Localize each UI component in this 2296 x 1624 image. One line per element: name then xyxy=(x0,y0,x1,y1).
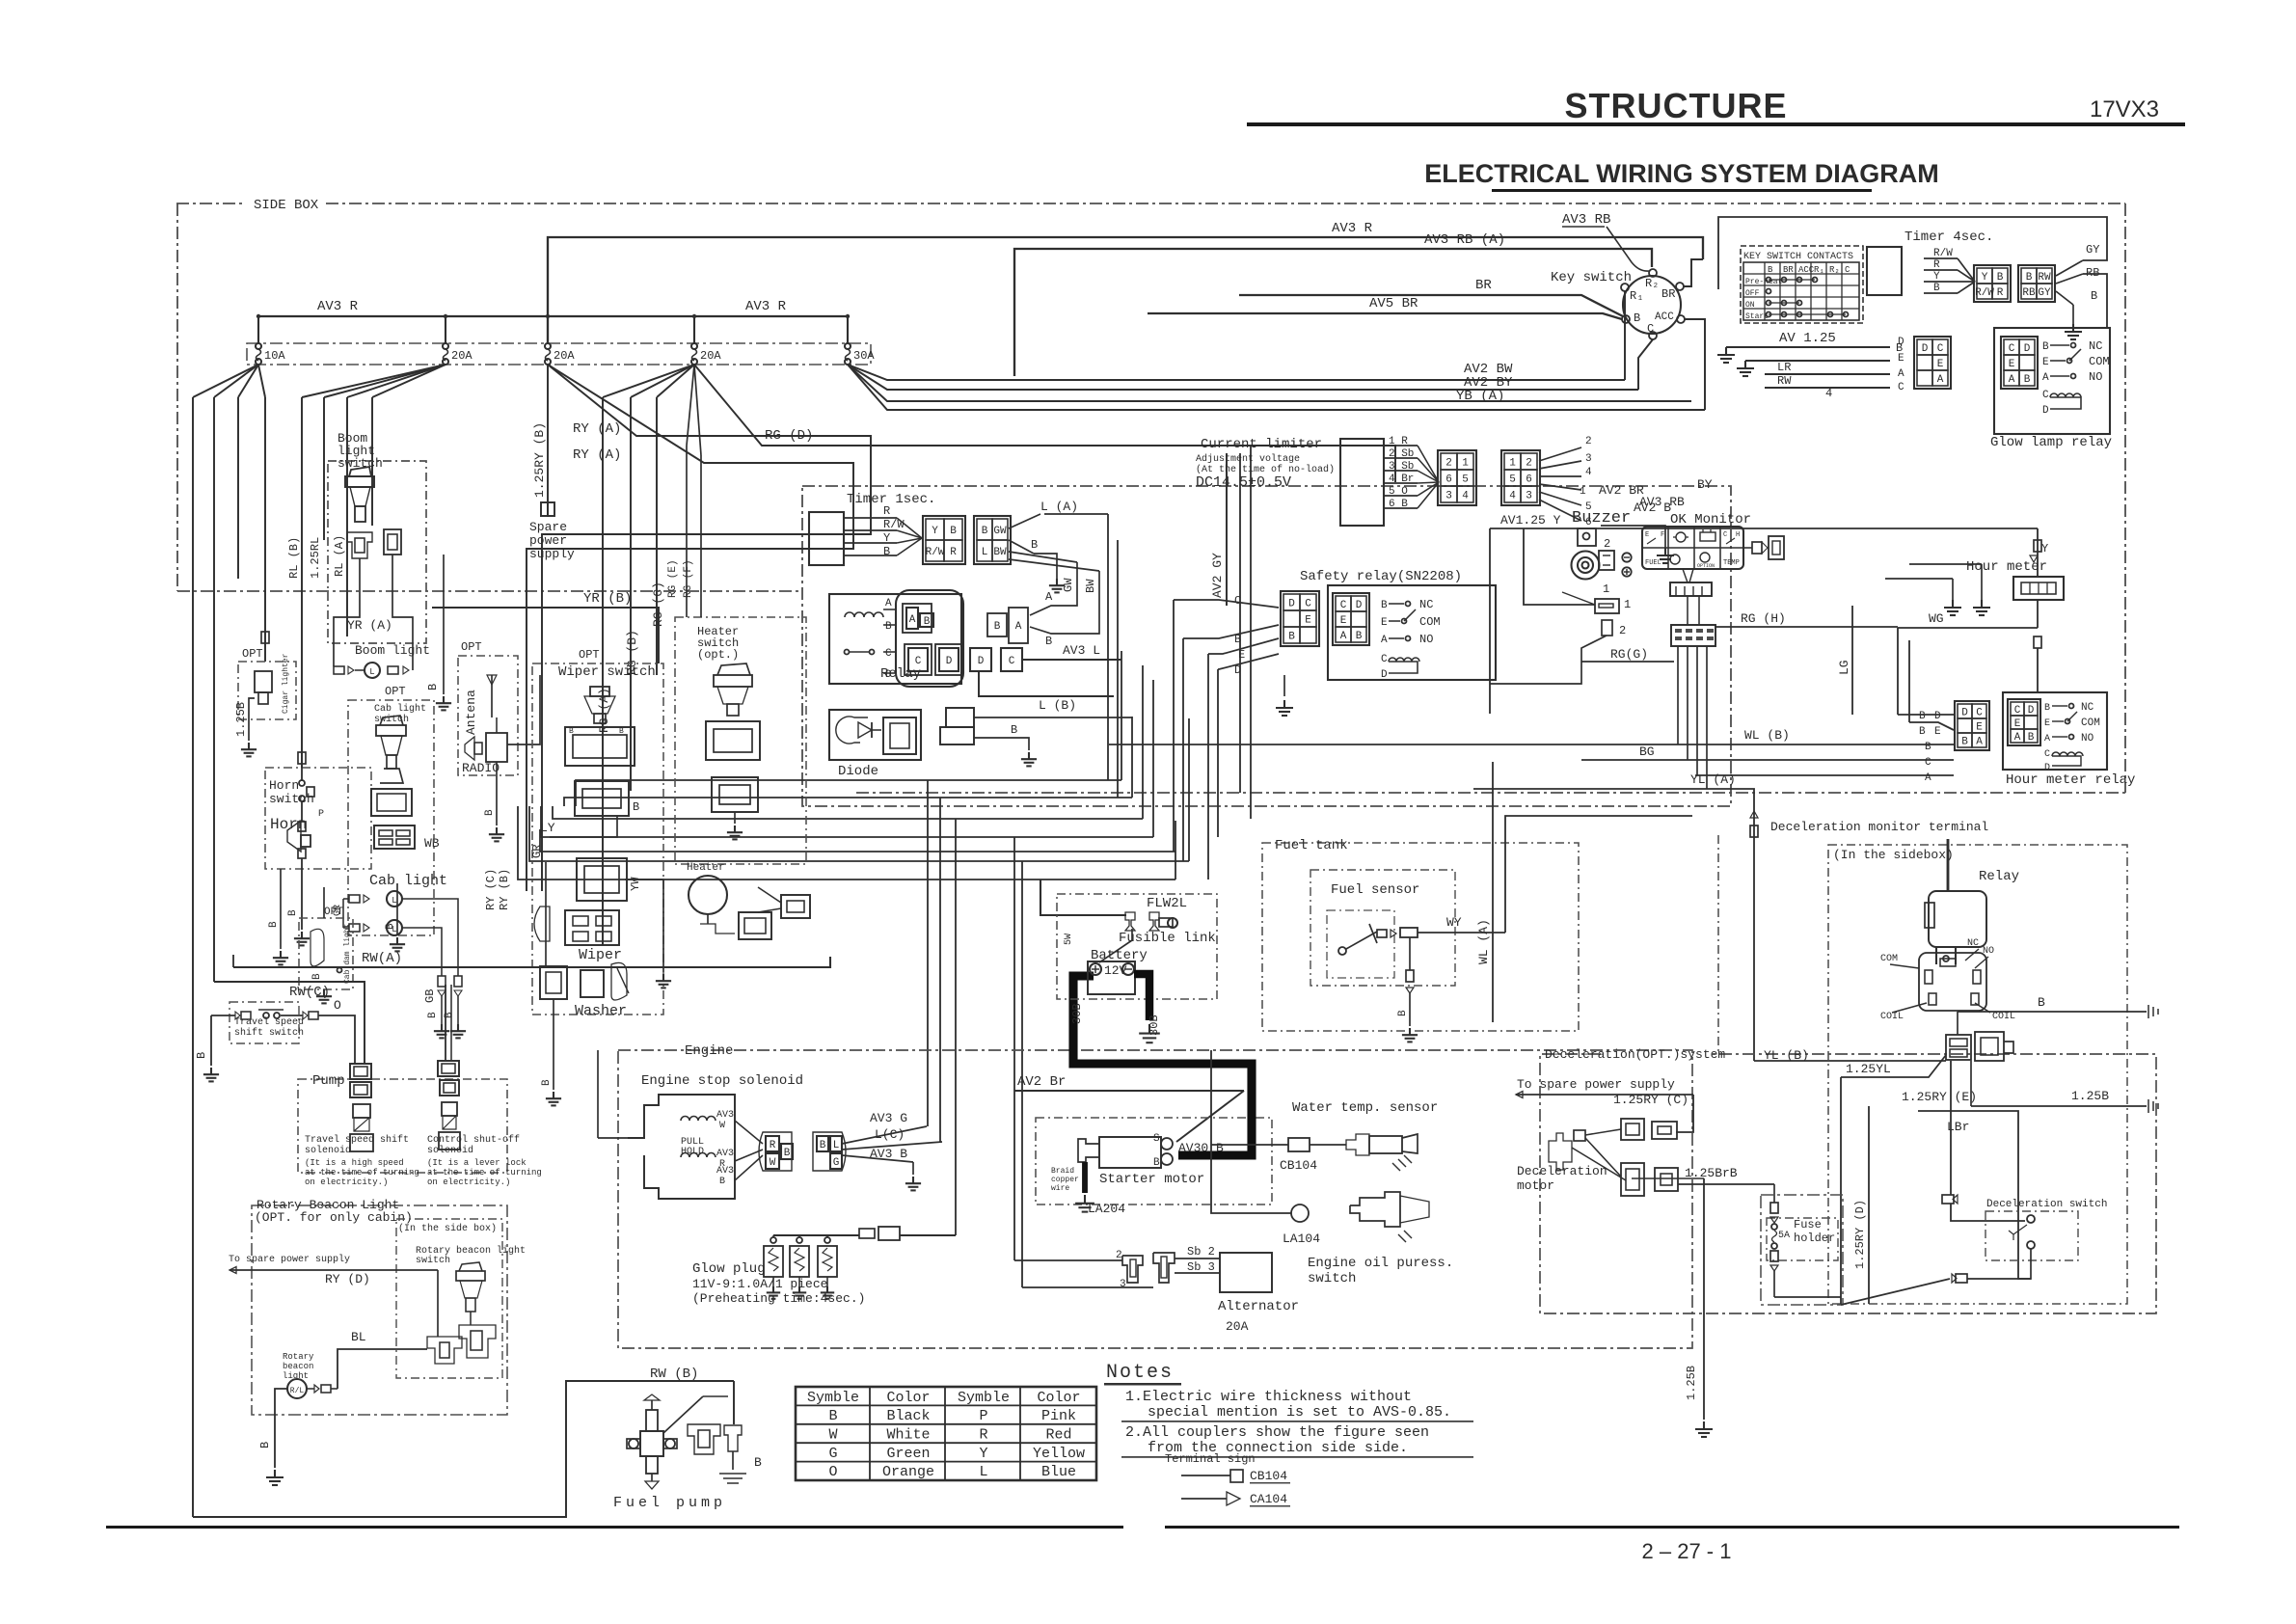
travel speed shift switch box xyxy=(230,1002,299,1043)
svg-text:A: A xyxy=(2014,732,2021,744)
svg-text:YB (A): YB (A) xyxy=(1456,389,1504,404)
svg-text:COIL: COIL xyxy=(1880,1012,1904,1022)
current limiter outputs xyxy=(1539,447,1581,461)
svg-text:NC: NC xyxy=(1419,598,1433,611)
svg-text:E: E xyxy=(1937,359,1944,370)
svg-text:GY: GY xyxy=(2038,287,2051,299)
wire 1.25YL vertical xyxy=(1840,1077,1842,1305)
timer output wires xyxy=(2056,260,2083,276)
boom light connector 2 xyxy=(384,529,401,555)
buzzer xyxy=(1578,528,1596,546)
svg-text:DC14.5±0.5V: DC14.5±0.5V xyxy=(1196,474,1291,491)
svg-text:NC: NC xyxy=(2089,339,2102,353)
boom light switch rocker xyxy=(345,476,374,487)
svg-text:20A: 20A xyxy=(554,349,575,363)
svg-text:C: C xyxy=(2009,343,2015,355)
svg-text:Terminal sign: Terminal sign xyxy=(1165,1452,1256,1466)
svg-text:YR (B): YR (B) xyxy=(583,591,632,607)
horn switch box xyxy=(265,768,371,869)
svg-text:solenoid: solenoid xyxy=(427,1145,473,1156)
glow relay connector xyxy=(1914,337,1951,389)
svg-text:AV3 R: AV3 R xyxy=(745,299,787,314)
svg-text:Pink: Pink xyxy=(1041,1408,1076,1424)
wire L (A) xyxy=(1009,514,1040,528)
svg-text:B: B xyxy=(982,526,988,537)
fanout from fuse 10A xyxy=(193,365,258,397)
svg-text:BL: BL xyxy=(351,1330,366,1344)
svg-text:Relay: Relay xyxy=(1979,869,2019,884)
safety relay input wires xyxy=(1174,600,1279,608)
spare power supply connector xyxy=(541,502,548,516)
svg-text:Safety relay(SN2208): Safety relay(SN2208) xyxy=(1300,569,1462,584)
svg-text:1.25RY (D): 1.25RY (D) xyxy=(1853,1200,1867,1269)
svg-text:A: A xyxy=(1976,737,1983,748)
svg-text:BR: BR xyxy=(1783,265,1794,275)
svg-text:SIDE BOX: SIDE BOX xyxy=(254,198,319,213)
svg-text:WL (A): WL (A) xyxy=(1476,919,1491,964)
svg-text:COM: COM xyxy=(1419,615,1441,629)
svg-text:1.25YL: 1.25YL xyxy=(1846,1062,1891,1076)
wiper relay connector xyxy=(575,781,629,816)
svg-text:R/L: R/L xyxy=(290,1387,305,1395)
svg-text:B: B xyxy=(784,1148,791,1159)
monitor battery icon xyxy=(1700,532,1715,541)
solenoid output wires xyxy=(842,1126,927,1144)
svg-text:B: B xyxy=(994,621,1001,633)
wire B ground diode xyxy=(974,738,1029,750)
mid band bottom dash-dot xyxy=(856,792,2125,794)
svg-text:30B: 30B xyxy=(1070,1003,1084,1024)
svg-text:(In the side box): (In the side box) xyxy=(398,1223,497,1234)
svg-text:R₂: R₂ xyxy=(1645,277,1659,290)
svg-text:R: R xyxy=(1997,287,2004,299)
dome light grounds xyxy=(280,869,282,949)
svg-text:WG: WG xyxy=(1929,611,1944,626)
svg-text:B: B xyxy=(2044,703,2050,714)
svg-text:E: E xyxy=(2014,718,2021,730)
monitor connector block xyxy=(1671,625,1715,646)
svg-text:Fuel sensor: Fuel sensor xyxy=(1331,882,1419,898)
svg-text:AV1.25 Y: AV1.25 Y xyxy=(1500,513,1561,528)
svg-text:NO: NO xyxy=(2081,733,2094,744)
svg-text:17VX3: 17VX3 xyxy=(2090,96,2159,122)
wire from D down xyxy=(979,671,1114,696)
svg-text:Y: Y xyxy=(2041,542,2048,555)
svg-text:White: White xyxy=(886,1426,930,1443)
fuse 10A at x=268 xyxy=(257,316,259,343)
svg-text:L (A): L (A) xyxy=(1040,500,1078,514)
svg-text:GR: GR xyxy=(530,845,544,858)
svg-text:NC: NC xyxy=(1967,938,1979,949)
timer ground xyxy=(2072,305,2074,324)
svg-text:Wiper: Wiper xyxy=(579,947,622,963)
svg-text:D: D xyxy=(2042,405,2049,417)
svg-text:RW: RW xyxy=(2038,272,2051,284)
relay connector AB xyxy=(903,604,932,633)
svg-text:B: B xyxy=(1045,635,1052,648)
monitor coolant icon xyxy=(1676,532,1686,542)
svg-text:1.25RY (E): 1.25RY (E) xyxy=(1902,1090,1977,1104)
svg-text:C: C xyxy=(1898,382,1904,393)
wire 1.25RY (B) to spare power supply xyxy=(547,365,549,501)
svg-text:C: C xyxy=(1009,656,1015,667)
current limiter connector A xyxy=(1438,450,1476,505)
svg-text:RY (B): RY (B) xyxy=(498,869,511,910)
svg-text:D: D xyxy=(1934,711,1941,722)
thick minus to ground xyxy=(1134,974,1149,1020)
svg-text:Fusible link: Fusible link xyxy=(1119,931,1216,946)
svg-text:Boom light: Boom light xyxy=(355,643,430,658)
svg-text:LG: LG xyxy=(1837,660,1851,675)
svg-text:Y: Y xyxy=(932,526,938,537)
svg-text:LY: LY xyxy=(540,821,555,835)
svg-text:G: G xyxy=(828,1446,837,1462)
alternator connector 1 xyxy=(1122,1256,1143,1283)
svg-text:Y: Y xyxy=(883,531,890,545)
wiper B ground wire xyxy=(625,880,663,972)
cab light opt box xyxy=(348,700,434,935)
wire RG(G) xyxy=(1490,636,1607,684)
svg-text:at the time of turning: at the time of turning xyxy=(427,1168,542,1177)
rotary beacon light connector xyxy=(307,1388,314,1390)
svg-text:E: E xyxy=(1305,615,1311,627)
svg-text:GW: GW xyxy=(1062,578,1075,592)
svg-text:1: 1 xyxy=(1462,458,1469,470)
svg-text:1.Electric wire thickness with: 1.Electric wire thickness without xyxy=(1125,1389,1412,1405)
svg-text:Y: Y xyxy=(1933,271,1940,283)
svg-text:shift switch: shift switch xyxy=(234,1027,304,1039)
svg-text:B: B xyxy=(2028,732,2035,744)
svg-text:A: A xyxy=(1381,635,1388,646)
glow feed connector xyxy=(859,1229,875,1238)
svg-text:R: R xyxy=(1933,259,1940,271)
glow lamp relay box xyxy=(1994,328,2110,434)
svg-text:B: B xyxy=(311,973,323,980)
svg-text:Rotary: Rotary xyxy=(283,1352,314,1362)
svg-text:D: D xyxy=(1288,599,1295,610)
svg-text:AV 1.25: AV 1.25 xyxy=(1779,331,1836,346)
wire bottom frame to RW(B) xyxy=(193,1381,734,1517)
engine solenoid wire to left xyxy=(598,1137,628,1139)
svg-text:H: H xyxy=(1736,531,1740,539)
wiper switch lever xyxy=(590,687,609,696)
svg-text:L (B): L (B) xyxy=(1039,698,1076,713)
svg-text:Hour meter relay: Hour meter relay xyxy=(2006,772,2135,788)
radio opt box xyxy=(458,656,518,775)
svg-text:NO: NO xyxy=(2089,370,2102,384)
fuel pump connectors xyxy=(688,1424,720,1454)
svg-text:2: 2 xyxy=(1445,458,1452,470)
vertical bundle xyxy=(1107,514,1109,780)
svg-text:B: B xyxy=(633,800,639,814)
connector BA mid xyxy=(987,613,1007,636)
svg-text:COM: COM xyxy=(2089,355,2110,368)
svg-text:C: C xyxy=(1723,531,1727,539)
svg-text:Adjustment voltage: Adjustment voltage xyxy=(1196,453,1300,465)
svg-text:OPT: OPT xyxy=(242,647,263,661)
svg-text:1: 1 xyxy=(1580,486,1586,498)
svg-text:Key switch: Key switch xyxy=(1551,270,1632,285)
svg-text:RG (H): RG (H) xyxy=(1741,611,1786,626)
svg-text:copper: copper xyxy=(1051,1176,1079,1184)
svg-text:R₁: R₁ xyxy=(1814,265,1824,275)
svg-text:RG(G): RG(G) xyxy=(1610,647,1648,662)
svg-text:(OPT. for only cabin): (OPT. for only cabin) xyxy=(255,1210,413,1225)
ok monitor connector right xyxy=(1743,547,1752,549)
svg-text:Y: Y xyxy=(1982,272,1988,284)
wire WL (A) vertical xyxy=(1492,762,1494,1022)
opt cab dome light xyxy=(299,918,353,989)
svg-text:AV3: AV3 xyxy=(716,1166,734,1177)
battery box xyxy=(1088,961,1135,994)
wire RY (A) lower xyxy=(527,365,853,891)
staircase horizontals xyxy=(576,780,1121,806)
deceleration opt system box xyxy=(1540,1054,2156,1313)
svg-text:FUEL: FUEL xyxy=(1645,559,1661,567)
svg-text:E: E xyxy=(1381,617,1388,629)
decel switch lower wire xyxy=(1967,1249,2031,1279)
hour meter relay input wires xyxy=(1898,714,1954,716)
svg-text:20A: 20A xyxy=(700,349,721,363)
svg-text:WB: WB xyxy=(424,836,440,851)
svg-text:AV3 L: AV3 L xyxy=(1063,643,1100,658)
svg-text:2 – 27 - 1: 2 – 27 - 1 xyxy=(1642,1539,1732,1563)
svg-text:B: B xyxy=(541,1079,553,1086)
svg-text:2: 2 xyxy=(1585,436,1592,447)
svg-text:ACC: ACC xyxy=(1798,265,1815,275)
svg-text:B: B xyxy=(820,1140,826,1151)
svg-text:A: A xyxy=(885,598,892,609)
svg-text:ACC: ACC xyxy=(1655,311,1674,323)
svg-text:Control shut-off: Control shut-off xyxy=(427,1134,520,1146)
timer 4sec connector xyxy=(1974,265,2011,302)
side box frame top xyxy=(176,203,244,204)
horn ground xyxy=(301,932,303,938)
relay timer enclosure xyxy=(802,486,1731,806)
svg-text:Fuel tank: Fuel tank xyxy=(1275,838,1348,853)
wire to hour meter xyxy=(2037,528,2039,577)
radio wires xyxy=(496,717,498,733)
svg-text:L: L xyxy=(392,896,396,906)
key switch contacts xyxy=(1649,269,1657,277)
svg-text:O: O xyxy=(828,1464,837,1480)
svg-text:B: B xyxy=(2026,272,2033,284)
svg-text:Sb 2: Sb 2 xyxy=(1187,1245,1215,1259)
rotary beacon light switch xyxy=(456,1271,485,1281)
monitor plug xyxy=(1670,582,1712,596)
svg-text:D: D xyxy=(1381,669,1388,681)
svg-text:switch: switch xyxy=(1308,1271,1356,1286)
timer 1sec fan wires xyxy=(844,517,897,519)
key switch BR-right link xyxy=(1684,259,1703,286)
svg-text:30B: 30B xyxy=(1148,1015,1161,1036)
key switch contacts table xyxy=(1741,246,1863,323)
svg-text:OPT: OPT xyxy=(324,907,343,918)
svg-text:1.25RY (B): 1.25RY (B) xyxy=(532,422,547,498)
svg-text:RADIO: RADIO xyxy=(462,761,500,775)
svg-text:COIL: COIL xyxy=(1992,1012,2015,1022)
svg-text:6 B: 6 B xyxy=(1389,499,1408,510)
fuse holder inner box xyxy=(1767,1218,1838,1260)
svg-text:E: E xyxy=(2009,359,2015,370)
svg-text:P: P xyxy=(318,809,324,820)
wire AV1.25 Y xyxy=(1490,528,2038,529)
svg-text:To spare power supply: To spare power supply xyxy=(229,1254,350,1265)
left vertical 3 xyxy=(237,397,239,579)
svg-text:RW(C): RW(C) xyxy=(289,985,330,1000)
fuse row band xyxy=(247,343,871,365)
svg-text:holder: holder xyxy=(1794,1232,1835,1245)
svg-text:RG (E): RG (E) xyxy=(667,559,679,598)
wiper motor xyxy=(565,910,619,945)
svg-text:B: B xyxy=(287,909,299,916)
rotary beacon switch wire xyxy=(437,1270,439,1337)
svg-text:Deceleration monitor terminal: Deceleration monitor terminal xyxy=(1770,820,1988,834)
svg-text:L(C): L(C) xyxy=(875,1127,905,1142)
svg-text:wire: wire xyxy=(1051,1184,1069,1193)
svg-text:Relay: Relay xyxy=(880,666,921,682)
svg-text:WY: WY xyxy=(1446,915,1462,930)
fusible link feed xyxy=(1040,880,1126,915)
pump box xyxy=(298,1079,507,1173)
heater opt box xyxy=(675,617,806,864)
travel speed switch wires xyxy=(211,1015,235,1016)
engine stop solenoid body xyxy=(628,1095,735,1199)
fuse 20A at x=462 xyxy=(445,316,446,343)
svg-text:B: B xyxy=(1925,742,1931,753)
svg-text:B: B xyxy=(885,621,892,633)
svg-text:RY (C): RY (C) xyxy=(484,869,498,910)
side box frame left xyxy=(176,203,178,591)
svg-text:NO: NO xyxy=(1983,946,1994,957)
svg-text:RB: RB xyxy=(2086,266,2099,280)
hour relay input A xyxy=(1695,774,1954,776)
svg-text:B: B xyxy=(1153,1157,1160,1169)
svg-text:Travel speed shift: Travel speed shift xyxy=(305,1134,409,1146)
svg-text:Wiper switch: Wiper switch xyxy=(558,664,656,680)
wire Y vertical left xyxy=(1489,528,1491,714)
svg-text:R/W: R/W xyxy=(1933,248,1953,259)
svg-text:C: C xyxy=(885,648,892,660)
svg-text:B: B xyxy=(258,1442,272,1448)
wire AV3 RB (A) xyxy=(1014,249,1652,376)
svg-text:B: B xyxy=(828,1408,837,1424)
svg-text:motor: motor xyxy=(1517,1178,1554,1193)
svg-text:A: A xyxy=(1340,631,1347,642)
svg-text:R: R xyxy=(950,547,957,558)
svg-text:C: C xyxy=(2014,705,2021,717)
svg-text:C: C xyxy=(1937,343,1944,355)
svg-text:HOLD: HOLD xyxy=(681,1147,704,1157)
wire AV5 BR xyxy=(1148,313,1622,319)
svg-text:C: C xyxy=(1234,594,1241,608)
svg-text:BY: BY xyxy=(1697,477,1713,492)
svg-text:G: G xyxy=(833,1157,840,1169)
wire WY xyxy=(1418,932,1505,934)
wiper opt box xyxy=(532,663,663,1015)
heater sw connector xyxy=(706,721,760,760)
wire RG (C) xyxy=(656,397,658,675)
svg-text:OPT: OPT xyxy=(461,640,482,654)
svg-text:Braid: Braid xyxy=(1051,1167,1074,1176)
svg-text:20A: 20A xyxy=(451,349,473,363)
svg-text:RG (D): RG (D) xyxy=(765,428,813,444)
svg-text:Fuel pump: Fuel pump xyxy=(613,1495,726,1511)
battery dash box xyxy=(1057,894,1217,999)
fuse holder outer box xyxy=(1761,1195,1843,1305)
svg-text:L: L xyxy=(982,547,988,558)
fuel sensor box xyxy=(1310,870,1455,986)
wire GW xyxy=(1009,552,1077,562)
svg-text:A: A xyxy=(2044,734,2050,744)
svg-text:E: E xyxy=(1340,615,1347,627)
svg-text:(opt.): (opt.) xyxy=(697,648,739,662)
svg-text:Heater: Heater xyxy=(687,862,725,874)
hour meter grounds xyxy=(1952,579,1954,600)
svg-text:E: E xyxy=(2042,357,2049,368)
svg-text:Water temp. sensor: Water temp. sensor xyxy=(1292,1100,1438,1116)
alternator connector 2 xyxy=(1153,1253,1175,1283)
svg-text:Engine: Engine xyxy=(685,1043,733,1059)
symbol color table xyxy=(796,1387,1096,1480)
wire BW xyxy=(1009,559,1099,571)
decel terminal connector 2 xyxy=(1602,620,1612,636)
key switch xyxy=(1623,276,1681,334)
solenoid connector xyxy=(759,1132,792,1171)
svg-text:5: 5 xyxy=(1509,474,1516,486)
timer 1sec mating connector xyxy=(974,516,1011,564)
svg-text:20A: 20A xyxy=(1226,1319,1249,1334)
cab light B ground xyxy=(396,883,398,935)
svg-text:Color: Color xyxy=(1037,1390,1080,1406)
svg-text:D: D xyxy=(946,656,953,667)
right verticals up xyxy=(1121,651,1122,780)
svg-text:BW: BW xyxy=(1084,579,1097,593)
svg-text:5W: 5W xyxy=(1064,934,1074,945)
fuse 20A at x=720 xyxy=(693,316,695,343)
svg-text:P: P xyxy=(979,1408,987,1424)
control shutoff connectors xyxy=(438,1061,459,1076)
antenna symbol xyxy=(491,675,493,717)
boom light ground xyxy=(443,696,445,703)
fusible link 2 xyxy=(1149,912,1159,931)
svg-text:AV2 GY: AV2 GY xyxy=(1210,553,1225,598)
wire 1.25RL vertical xyxy=(264,397,266,662)
horn switch contacts xyxy=(299,780,305,786)
svg-text:W: W xyxy=(770,1157,776,1169)
svg-text:B: B xyxy=(950,526,957,537)
footer rule right xyxy=(1165,1526,2179,1529)
rotary beacon light outer box xyxy=(252,1205,507,1415)
svg-text:R: R xyxy=(883,504,890,518)
svg-text:on electricity.): on electricity.) xyxy=(427,1177,510,1187)
svg-text:B: B xyxy=(1919,726,1926,738)
svg-text:A: A xyxy=(1015,621,1022,633)
svg-text:3: 3 xyxy=(1120,1279,1126,1290)
wire RW(C) vertical xyxy=(213,397,215,982)
svg-text:Timer 4sec.: Timer 4sec. xyxy=(1904,230,1993,245)
starter motor body xyxy=(1099,1137,1161,1168)
svg-text:Alternator: Alternator xyxy=(1218,1299,1299,1314)
boom light wires xyxy=(355,669,365,671)
svg-text:3: 3 xyxy=(1445,491,1452,502)
svg-text:(Preheating time:4sec.): (Preheating time:4sec.) xyxy=(692,1291,865,1306)
wire RW(C) horizontal xyxy=(214,982,365,1064)
svg-text:BW: BW xyxy=(993,547,1007,558)
svg-text:RY (D): RY (D) xyxy=(325,1272,370,1286)
svg-text:D: D xyxy=(2028,705,2035,717)
starter ground thick xyxy=(1082,1162,1088,1193)
